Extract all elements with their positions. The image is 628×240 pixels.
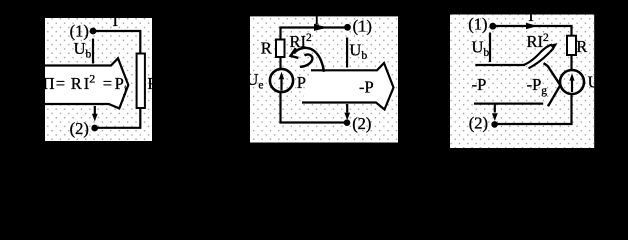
svg-text:(1): (1) — [353, 17, 372, 36]
label R — [576, 37, 587, 56]
node (2) junction dot — [91, 125, 98, 132]
node (2) junction dot — [344, 119, 351, 126]
wire: resistor to source — [570, 55, 572, 70]
label R (clipped by panel right edge) — [147, 74, 158, 93]
wire: node (1) to corner to resistor top — [93, 31, 140, 54]
node (1) junction dot — [489, 23, 496, 30]
voltage arrow Ub (line) — [92, 39, 94, 64]
label -Pg — [527, 75, 548, 97]
power flow block arrow -P — [302, 63, 394, 110]
current label I (clipped by panel top) — [314, 10, 320, 29]
curled arrow RI² loss inside source — [291, 48, 324, 72]
wire: node (1) to top-right corner to resistor — [493, 26, 572, 36]
label Ub — [74, 39, 92, 61]
label RI² — [290, 32, 313, 51]
svg-text:(2): (2) — [70, 119, 89, 138]
wire: resistor top to corner to node (1) — [281, 28, 348, 40]
reversed power flow open arrow into source — [474, 63, 560, 106]
node (2) junction dot — [491, 121, 498, 128]
node (1) label — [70, 21, 89, 40]
label -P — [359, 77, 374, 96]
source U1 (circle with up arrow) — [270, 69, 293, 92]
source U2 (circle with up arrow) — [560, 70, 584, 94]
svg-text:R: R — [576, 37, 587, 56]
node (2) label — [352, 114, 371, 133]
svg-text:П=RI2=Pj: П=RI2=Pj — [43, 72, 128, 97]
svg-text:(1): (1) — [468, 15, 487, 34]
current arrowhead on top wire — [526, 23, 538, 29]
svg-text:(1): (1) — [70, 21, 89, 40]
node (2) label — [469, 114, 488, 133]
wire: source to bottom corner to node (2) — [281, 92, 348, 123]
wire: source to bottom corner to node (2) — [495, 94, 572, 124]
voltage arrow Ub (line) — [489, 33, 491, 63]
current arrowhead on top wire — [314, 24, 328, 31]
power flow block arrow into resistor — [43, 58, 128, 108]
swoosh arrow RI² toward resistor — [524, 43, 558, 68]
label Ue (clipped by panel right edge) — [588, 73, 605, 95]
label Ub — [349, 41, 367, 63]
current label I (clipped by panel top) — [113, 11, 119, 30]
node (2) label — [70, 119, 89, 138]
svg-text:-P: -P — [359, 77, 374, 96]
current arrow into node (2) — [492, 104, 498, 121]
label R — [261, 39, 272, 58]
current arrow into node (2) — [92, 106, 98, 122]
node (1) label — [468, 15, 487, 34]
current arrow into node (2) — [344, 104, 350, 120]
node (1) junction dot — [344, 24, 351, 31]
voltage arrow Ub (line) — [346, 38, 348, 68]
resistor R (internal, vertical) — [276, 40, 285, 58]
svg-text:R: R — [261, 39, 272, 58]
resistor R1 (vertical) — [137, 54, 145, 109]
current label I (clipped by panel top) — [528, 6, 534, 25]
svg-text:(2): (2) — [352, 114, 371, 133]
label Ue (clipped by panel left edge) — [246, 70, 263, 92]
svg-text:-P: -P — [472, 75, 487, 94]
wire: resistor to source — [279, 57, 281, 69]
label RI² — [527, 32, 550, 51]
label Ub — [472, 38, 490, 60]
node (1) label — [353, 17, 372, 36]
svg-text:(2): (2) — [469, 114, 488, 133]
node (1) junction dot — [90, 28, 97, 35]
label Pg — [297, 73, 312, 95]
wire: node (2) to resistor bottom — [95, 108, 141, 128]
equation label П = RI² = Pj — [43, 72, 128, 97]
resistor R (vertical) — [567, 36, 576, 55]
label -P — [472, 75, 487, 94]
